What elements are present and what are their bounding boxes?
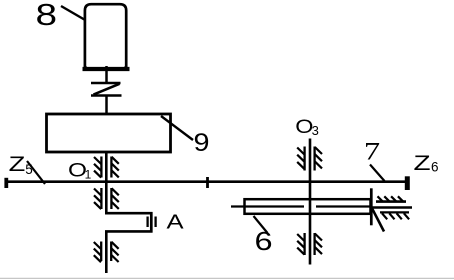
bearing pair on shaft I below axis xyxy=(94,188,119,209)
svg-text:7: 7 xyxy=(364,138,380,166)
label Z5 xyxy=(9,153,33,177)
bearing pair on shaft II bottom xyxy=(297,233,322,255)
middle tick on axis xyxy=(206,177,209,188)
svg-text:Z: Z xyxy=(413,151,430,175)
screw axis line (left stub and through nut) xyxy=(231,205,371,207)
svg-text:6: 6 xyxy=(431,160,439,175)
right end tick (Z6) xyxy=(405,176,410,190)
leader line to label 6 xyxy=(254,216,268,233)
lead screw nut 6 (rectangle) xyxy=(245,199,371,214)
svg-text:8: 8 xyxy=(36,0,58,32)
label Z6 xyxy=(413,151,438,175)
svg-text:3: 3 xyxy=(312,123,319,138)
fixed guide support (frame) at right end of screw xyxy=(371,188,412,231)
label 7 xyxy=(364,138,380,166)
crank right web xyxy=(150,212,153,233)
label O3 xyxy=(295,116,319,138)
motor M (element 8) xyxy=(83,4,130,69)
label 6 xyxy=(254,227,272,256)
elastic coupling (zigzag) between motor and gearbox xyxy=(91,66,122,114)
leader line to motor 8 xyxy=(61,6,92,24)
crank lower arm xyxy=(105,230,153,233)
gearbox 9 (box) xyxy=(47,114,171,152)
leader line from 7 to axis end xyxy=(370,165,385,182)
crank pin A ticks xyxy=(148,217,156,228)
svg-text:1: 1 xyxy=(85,168,92,182)
svg-text:A: A xyxy=(166,210,184,233)
label A xyxy=(166,210,184,233)
main axis line Z5-Z6 xyxy=(6,180,408,183)
crank on shaft I (upper arm) xyxy=(105,212,153,215)
label 9 xyxy=(194,129,210,157)
bearing pair on shaft I bottom xyxy=(94,242,119,263)
leader line from Z5 to axis xyxy=(27,161,45,184)
vertical shaft II (O3) xyxy=(309,139,312,265)
bearing pair on shaft II above axis xyxy=(297,147,322,171)
svg-text:Z: Z xyxy=(9,153,26,176)
bearing pair on shaft I above axis xyxy=(94,157,119,178)
vertical shaft I (upper part, gearbox to crank) xyxy=(105,152,108,214)
vertical shaft I (lower part) xyxy=(105,231,108,273)
label 8 xyxy=(36,0,58,32)
svg-text:6: 6 xyxy=(254,227,272,256)
faint scan border line at bottom xyxy=(0,277,454,279)
left end tick (Z5) xyxy=(4,178,8,188)
label O1 xyxy=(68,159,92,182)
svg-text:9: 9 xyxy=(194,129,210,157)
leader line to label 9 xyxy=(161,116,193,140)
